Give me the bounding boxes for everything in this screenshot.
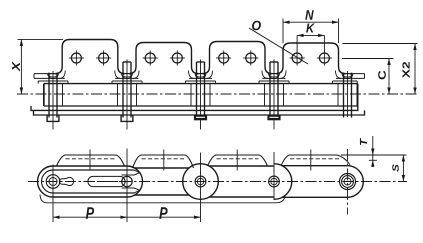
nut under pin 3 (dark block) (194, 115, 207, 120)
dimension X2 extension line (342, 43, 417, 45)
dimension C line (388, 59, 390, 95)
attachment A4 bend curls (280, 71, 286, 79)
foot hole ellipse over pin 1 (48, 74, 57, 78)
outer plate step at joint 3 (186, 80, 216, 82)
band centre tick 2 (163, 150, 165, 171)
pin 2 (x=127) (122, 62, 124, 118)
dimension N line (283, 21, 339, 23)
hidden bend line band 2 (142, 158, 185, 160)
pin 4 vertical centerline (273, 152, 275, 200)
foot strip between A2 and A3 (199, 73, 203, 75)
pin 3 vertical centerline (200, 153, 202, 223)
link 1 outer plate outline (attachment link) (37, 166, 142, 197)
pin 5 vertical centerline (347, 149, 349, 215)
attachment A4 hole 1 (292, 53, 302, 63)
foot hole ellipse over pin 3 (196, 74, 205, 78)
outer plate step at joint 1 (38, 80, 68, 82)
attachment A2 bend curls (133, 71, 139, 79)
link plates bottom edge (44, 105, 358, 107)
right end plate edge (357, 84, 359, 106)
dimension T lower tick (369, 159, 377, 161)
right end foot strip (346, 73, 365, 75)
pin 5 roller (340, 174, 356, 190)
foot curl cup at pin 3 (195, 74, 206, 79)
attachment A1 hole 1 (71, 53, 81, 63)
label S (392, 164, 399, 171)
plate ends at joint 1 (43, 84, 45, 106)
pin 2 vertical centerline (126, 149, 128, 223)
label P second (159, 207, 167, 219)
band centre tick 4 (310, 150, 312, 171)
outer plate step at joint 5 (333, 80, 358, 82)
far-side flange bottom line (40, 195, 285, 203)
attachment A2 bent face (129, 43, 199, 74)
leader line O (249, 28, 308, 64)
dimension X2 line (414, 44, 416, 95)
left end foot strip (34, 73, 55, 75)
keyhole slot (59, 177, 73, 185)
dimension S extension top line (341, 154, 407, 156)
label N (305, 10, 313, 19)
attachment flange band link 1 (57, 155, 125, 166)
link 3 plate outline (210, 165, 274, 167)
pin 2 head (122, 176, 132, 186)
plate ends at joint 3 (190, 84, 192, 106)
link 4 plate outline (end link) (282, 166, 363, 198)
foot curl cup at pin 5 (342, 74, 353, 79)
hidden bend line band 4 (290, 158, 341, 160)
foot hole ellipse over pin 4 (269, 74, 278, 78)
nut under pin 2 (open box) (121, 115, 133, 121)
label X (12, 61, 20, 71)
bottom view chain centerline (28, 181, 407, 183)
label C (378, 71, 386, 80)
hidden bend line band 3 (217, 158, 259, 160)
pin 1 (x=53) (48, 73, 50, 118)
outer plate step at joint 4 (259, 80, 289, 82)
attachment A3 bent face (203, 42, 273, 74)
band centre tick 3 (236, 150, 238, 171)
dimension C extension line (342, 58, 394, 60)
attachment flange band link 2 (133, 155, 194, 168)
attachment A1 hole 2 (99, 53, 109, 63)
attachment A1 bent face (55, 40, 125, 74)
pin 3 (x=200.5) (196, 62, 198, 118)
dimension X line (20, 39, 22, 94)
lower bar 1 outline (31, 106, 358, 110)
attachment A1 bend curls (59, 71, 65, 79)
foot curl cup at pin 1 (48, 74, 59, 79)
label K (306, 23, 315, 32)
attachment A2 hole 1 (145, 53, 155, 63)
foot hole ellipse over pin 5 (343, 74, 352, 78)
foot curl cup at pin 2 (122, 74, 133, 79)
nut under pin 4 (dark block) (268, 115, 281, 120)
attachment A4 bent face (276, 43, 346, 74)
attachment A3 hole 2 (246, 53, 256, 63)
lower bar 2 outline (34, 110, 365, 115)
knuckle barrel at joint 3 (183, 164, 219, 200)
knuckle barrel at joint 4 (half) (274, 164, 292, 200)
label O (252, 21, 261, 31)
top view chain centerline (17, 93, 419, 95)
foot strip between A1 and A2 (125, 73, 129, 75)
foot strip between A3 and A4 (272, 73, 276, 75)
long slot (88, 176, 125, 186)
attachment A3 hole 1 (219, 53, 229, 63)
attachment A2 hole 2 (172, 53, 182, 63)
foot hole ellipse over pin 2 (122, 74, 131, 78)
plate ends at joint 5 (337, 84, 339, 106)
left end plate edge (43, 84, 45, 106)
attachment A4 hole 2 (319, 53, 329, 63)
pin 1 vertical centerline (52, 165, 54, 223)
plate ends at joint 2 (117, 84, 119, 106)
dimension K line (297, 34, 324, 36)
link 1 inner plate outline (42, 170, 135, 193)
band centre tick 1 (89, 150, 91, 171)
dimension K extension lines (296, 35, 298, 51)
label T (360, 138, 367, 145)
pin 3 head (195, 176, 206, 187)
dimension T line (372, 136, 374, 167)
label X2 (402, 62, 409, 78)
pin 5 (x=347.5) (343, 73, 345, 118)
dimension P line 1 (53, 216, 127, 218)
foot curl cup at pin 4 (269, 74, 280, 79)
dimension N extension lines (282, 19, 284, 44)
nut under pin 1 (open box) (47, 115, 59, 121)
plate ends at joint 4 (264, 84, 266, 106)
attachment flange band link 3 (208, 155, 268, 166)
hidden bend line band 1 (66, 158, 116, 160)
long slot centerline (84, 181, 129, 183)
label P first (86, 207, 94, 219)
dimension P line 2 (127, 216, 201, 218)
pin 4 head (269, 176, 280, 187)
attachment plate slot claw at pin 2 (122, 170, 140, 175)
pin 1 head (46, 175, 60, 189)
pin 4 (x=274) (269, 62, 271, 118)
attachment A3 bend curls (207, 71, 213, 79)
dimension X extension line (18, 38, 64, 40)
attachment flange band link 4 (281, 155, 350, 166)
link plates top edge (44, 83, 358, 85)
outer plate step at joint 2 (112, 80, 142, 82)
dimension S line (402, 155, 404, 182)
link 2 plate outline (135, 167, 189, 169)
